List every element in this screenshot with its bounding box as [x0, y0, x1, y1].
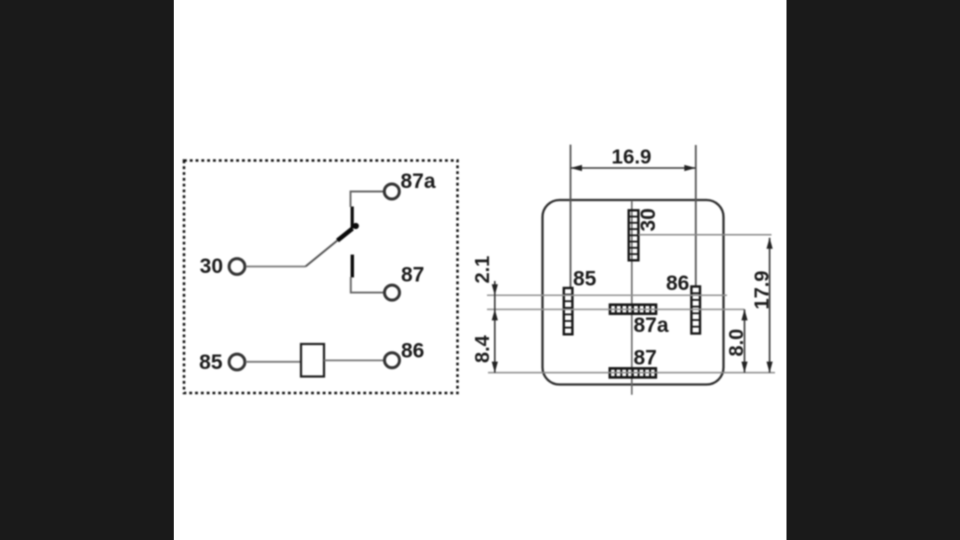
pin 87a blade (horizontal) [610, 305, 656, 314]
pin 87 blade (horizontal) [610, 368, 656, 377]
center vertical axis line [631, 201, 633, 395]
terminal 86 circle [385, 353, 400, 368]
switch armature (movable contact) [306, 238, 342, 267]
svg-text:85: 85 [199, 351, 223, 374]
dimension line 16.9 [571, 167, 696, 169]
dimension line 17.9 [769, 238, 771, 373]
svg-text:85: 85 [573, 268, 597, 291]
pin 86 blade (vertical) [691, 287, 700, 334]
svg-text:8.4: 8.4 [472, 334, 494, 363]
wire corner down to 87 [351, 277, 385, 293]
reference line pin 87a centre [487, 308, 745, 310]
pin 85 blade (vertical) [564, 288, 573, 334]
wire corner up to 87a [351, 192, 385, 208]
svg-text:86: 86 [401, 340, 424, 363]
dimension line 8.0 [744, 309, 746, 372]
terminal 85 circle [229, 354, 245, 370]
svg-text:87: 87 [634, 347, 657, 370]
pin 30 blade (vertical) [629, 210, 639, 260]
terminal 30 circle [229, 259, 245, 275]
arrow up onto 87a line (2.1 bottom / 8.4 top) [492, 309, 498, 320]
terminal 87 circle [385, 285, 400, 300]
reference line pins 85/86 centre [487, 294, 727, 296]
svg-text:87a: 87a [401, 170, 436, 193]
armature contact blob [353, 223, 359, 229]
reference line pin 30 centre [638, 234, 771, 236]
extension line left (pin 85) [570, 145, 572, 289]
arrow down onto 85/86 line (2.1 top) [492, 284, 498, 295]
svg-text:30: 30 [200, 255, 223, 278]
svg-text:87a: 87a [634, 314, 669, 337]
dashed enclosure box [184, 161, 458, 394]
svg-text:87: 87 [401, 264, 424, 287]
NC fixed contact (87a side), thick bar [351, 207, 354, 229]
terminal 87a circle [384, 184, 399, 199]
svg-text:16.9: 16.9 [612, 146, 652, 169]
NO fixed contact (87 side), thick bar [351, 255, 354, 278]
reference line pin 87 centre [488, 372, 775, 374]
svg-text:86: 86 [666, 272, 689, 295]
white page strip [174, 0, 787, 540]
coil box [301, 344, 324, 377]
wire coil to 86 [324, 359, 384, 361]
armature contact tip [338, 229, 353, 241]
left dimension vertical line [494, 281, 496, 373]
arrow down onto 87 line (8.4 bottom) [492, 362, 498, 373]
svg-text:8.0: 8.0 [726, 329, 748, 357]
svg-text:30: 30 [637, 208, 660, 231]
extension line right (pin 86) [695, 145, 697, 287]
relay body outline [543, 200, 724, 385]
wire from 30 to switch pivot [246, 266, 306, 268]
svg-text:2.1: 2.1 [472, 256, 494, 284]
wire 85 to coil [246, 361, 301, 363]
svg-text:17.9: 17.9 [752, 271, 774, 310]
